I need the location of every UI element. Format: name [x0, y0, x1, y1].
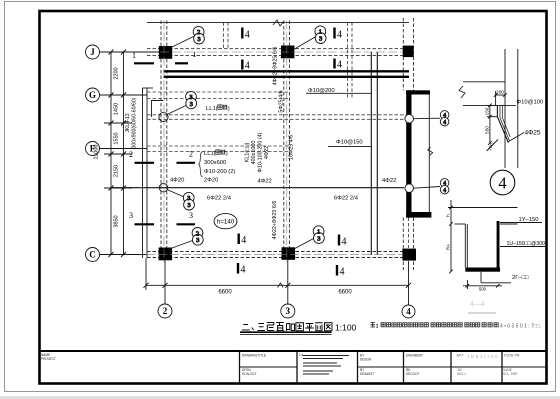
detail left dim chain [489, 105, 491, 143]
callout 2/3 top grid2 [172, 37, 194, 48]
U left dim [450, 200, 452, 272]
glyph san [257, 324, 265, 331]
big detail circle 4 [490, 170, 515, 195]
title block CJK note lines (drawn) [303, 356, 349, 375]
svg-text:6Φ22 2/4: 6Φ22 2/4 [334, 196, 359, 202]
row y117 dashed beam [147, 114, 406, 116]
wall return notch [152, 101, 164, 118]
svg-text:4: 4 [342, 237, 347, 248]
svg-text:SCALSCT: SCALSCT [242, 372, 257, 376]
svg-text:3: 3 [190, 101, 193, 108]
U bottom dim [463, 285, 502, 287]
section 2 dash left [135, 162, 155, 164]
wall right thin line [428, 95, 430, 213]
svg-text:2150: 2150 [113, 165, 119, 177]
title glyphs (drawn CJK strokes) [242, 323, 332, 332]
svg-text:DESGN: DESGN [360, 358, 372, 362]
break on slab left [459, 86, 465, 98]
U left wall [464, 224, 466, 268]
section mark 4 bottom-right-bay lower [336, 265, 338, 276]
svg-text:3: 3 [196, 237, 199, 244]
title block top line [39, 350, 547, 352]
svg-text:4: 4 [443, 113, 446, 119]
section 3 dash right [177, 223, 196, 225]
detail vertical line A [504, 49, 506, 168]
svg-text:6600: 6600 [338, 290, 352, 296]
grid4 beam dashed pair [402, 18, 404, 91]
title block divider v3 [357, 351, 359, 384]
svg-text:4—4: 4—4 [470, 301, 485, 308]
wall bottom flange [406, 212, 431, 218]
svg-text:4 • 6 3 5 0 1 : 7□□.: 4 • 6 3 5 0 1 : 7□□. [500, 324, 541, 330]
svg-text:4: 4 [337, 30, 342, 41]
svg-text:4Φ22+8Φ25 6/6: 4Φ22+8Φ25 6/6 [272, 201, 278, 240]
glyph gu [296, 323, 304, 331]
dim ticks bottom [144, 283, 412, 288]
svg-text:4: 4 [337, 60, 342, 71]
title block texts [41, 353, 520, 376]
svg-text:3: 3 [187, 202, 190, 209]
title underline double [240, 331, 332, 333]
grid line J stub [100, 51, 160, 53]
title block divider v4 [403, 351, 405, 384]
title block divider v2 [296, 351, 298, 384]
column grid3/J [281, 46, 294, 59]
grid bubble 2 [158, 304, 172, 318]
glyph ceng [267, 323, 275, 331]
svg-text:1450: 1450 [113, 103, 119, 115]
svg-text:DRAWINGTITLE: DRAWINGTITLE [242, 354, 266, 358]
svg-text:JKL4-13: JKL4-13 [125, 113, 131, 132]
title block stamp box [501, 351, 503, 384]
break on dim line [278, 283, 284, 288]
grid line C stub [100, 254, 148, 256]
U right wall [497, 221, 500, 268]
wall node circle lower [405, 184, 414, 193]
svg-text:h=140: h=140 [217, 219, 235, 226]
svg-text:1Y–150: 1Y–150 [519, 217, 539, 223]
svg-text:4: 4 [245, 61, 250, 72]
J row dashed beam [147, 48, 403, 50]
section 2 dash right [177, 162, 196, 164]
svg-text:550: 550 [484, 126, 489, 134]
dim 200 [496, 94, 505, 96]
callout 1/3 top grid3 [295, 37, 316, 49]
wall break symbol [428, 147, 433, 156]
svg-text:J: J [90, 47, 95, 57]
svg-text:200: 200 [496, 90, 504, 95]
mid beam between 3-4 dashed pair [347, 22, 349, 99]
glyph tu [324, 323, 332, 331]
bottom dimension line [146, 284, 409, 286]
grid circle C [86, 248, 100, 262]
node circle left row117 [159, 112, 168, 121]
svg-text:): ) [226, 151, 228, 157]
vertical text block KL1 new [245, 132, 271, 172]
chain extension stubs [104, 52, 132, 255]
svg-text:3: 3 [129, 211, 133, 220]
svg-text:2: 2 [163, 306, 168, 316]
wall node circle upper [405, 114, 414, 123]
title block divider v1 [239, 351, 241, 384]
svg-text:2Φ20: 2Φ20 [204, 178, 218, 184]
bottom gray strip [0, 396, 560, 399]
node circle left row187 [159, 184, 167, 192]
svg-text:10Φ25 4/6: 10Φ25 4/6 [289, 135, 295, 160]
chain tick marks [109, 50, 127, 258]
mid beam between 2-3 dashed pair [223, 22, 225, 48]
svg-text:Φ10-100-200 (4): Φ10-100-200 (4) [258, 132, 264, 172]
svg-text:1:100: 1:100 [335, 323, 357, 333]
svg-text:400x1000: 400x1000 [251, 141, 257, 165]
svg-text:3: 3 [197, 36, 200, 43]
title block mid horizontal [240, 366, 298, 368]
left dimension chain line inner [110, 52, 112, 255]
glyph mian [315, 323, 323, 331]
callout 3/3 upper-left [166, 106, 186, 116]
grid3 beam dashed pair [283, 21, 285, 261]
F row dashed beam [147, 145, 288, 147]
svg-text:2: 2 [189, 150, 193, 159]
svg-text:2: 2 [129, 150, 133, 159]
svg-text:4: 4 [245, 30, 250, 41]
svg-text:4: 4 [241, 265, 246, 276]
grid bubble 3 [281, 304, 295, 318]
callout 4/4 wall upper [414, 117, 441, 120]
section mark 4 top-left-bay lower [241, 60, 243, 70]
grid line G stub [100, 94, 148, 96]
svg-text:3: 3 [189, 211, 193, 220]
svg-text:WCL1: WCL1 [457, 372, 466, 376]
svg-text:4Φ22: 4Φ22 [264, 146, 270, 159]
svg-text:1550: 1550 [113, 132, 119, 144]
svg-text:11000: 11000 [94, 145, 100, 160]
text block LL1 new [199, 150, 236, 184]
svg-text:4Φ25: 4Φ25 [525, 130, 541, 137]
glyph ding [276, 323, 284, 332]
section mark 4 bottom-left-bay lower [237, 263, 239, 274]
label 1U-150@300 [500, 246, 546, 248]
detail slab line 2 [463, 104, 516, 106]
column grid2/C [159, 248, 172, 261]
svg-text:150: 150 [484, 107, 489, 115]
svg-text:2200: 2200 [113, 67, 119, 79]
svg-text:ENGINEER: ENGINEER [406, 354, 423, 358]
svg-text:FOOB-754: FOOB-754 [504, 354, 520, 358]
svg-text:4: 4 [241, 235, 246, 246]
extension line grid4 [408, 261, 410, 305]
svg-text:4: 4 [340, 267, 345, 278]
break on top line [273, 20, 284, 26]
center line grid2 [163, 21, 165, 263]
svg-text:C: C [89, 250, 96, 260]
C row dashed beam [147, 251, 403, 253]
section mark 4 bottom-right-bay upper [338, 235, 340, 246]
svg-text:300x900(60/60-60/60): 300x900(60/60-60/60) [132, 97, 138, 148]
beam haunch outline [497, 105, 508, 142]
svg-text:G: G [89, 90, 96, 100]
extension line grid3 [287, 260, 289, 304]
title block divider v5 [450, 351, 452, 384]
svg-text:1U–150□□@300: 1U–150□□@300 [507, 241, 545, 247]
callout 3/3 lower-left [167, 190, 184, 198]
section mark 4 bottom-left-bay upper [237, 234, 239, 245]
thick beam J-G lower line [164, 76, 410, 78]
svg-text:3: 3 [319, 36, 322, 43]
svg-text:6Φ22 2/4: 6Φ22 2/4 [207, 196, 232, 202]
wall top flange [406, 90, 430, 94]
svg-text:6600: 6600 [218, 290, 232, 296]
svg-text:SCL-TWR: SCL-TWR [503, 372, 518, 376]
callout 1/3 bottom grid3 [294, 239, 314, 250]
svg-text:2Γ–□□: 2Γ–□□ [512, 275, 529, 281]
column grid4/C [402, 249, 416, 261]
top boundary line [147, 21, 409, 23]
svg-text:LL1(: LL1( [206, 106, 218, 112]
svg-text:3: 3 [317, 235, 320, 242]
wall left flange [406, 90, 411, 217]
svg-text:1: 1 [193, 50, 197, 59]
U top-right ledge [500, 223, 518, 225]
svg-text:): ) [228, 106, 230, 112]
U bottom flange [465, 268, 500, 272]
faint stamp under U detail [470, 301, 485, 308]
extension line left end [145, 258, 147, 290]
section 1 dash right [175, 62, 188, 64]
svg-text:4: 4 [406, 307, 411, 317]
svg-text:4: 4 [443, 181, 446, 187]
svg-text:LL1(: LL1( [204, 151, 216, 157]
label 2T with leader [480, 272, 482, 283]
grid circle G [86, 88, 100, 102]
grid circle J [86, 45, 100, 59]
svg-text:4: 4 [443, 120, 446, 126]
U top-left ledge [455, 223, 466, 225]
svg-text:KL1(□□): KL1(□□) [245, 142, 251, 162]
label 4phi25 with leader [509, 133, 525, 142]
row y187 thin beam [111, 187, 404, 189]
center line grid3 [286, 21, 288, 263]
glyph comma [252, 328, 254, 331]
svg-text:1.4: 1.4 [299, 353, 304, 357]
detail vertical line B [517, 49, 519, 168]
svg-text:3: 3 [286, 306, 291, 316]
column grid3/C [282, 247, 296, 259]
svg-text:5Φ25 4/6: 5Φ25 4/6 [279, 90, 285, 112]
svg-text:4: 4 [443, 188, 446, 194]
G row dashed beam [147, 91, 288, 93]
grid line F stub [100, 148, 148, 150]
label LL1 upper with fake CJK [206, 105, 230, 112]
extension line grid2 [164, 261, 166, 305]
grid bubble 4 [402, 305, 415, 318]
svg-text:PROJECT: PROJECT [41, 357, 56, 361]
svg-text:SECGOT: SECGOT [406, 372, 420, 376]
glyph er [242, 325, 250, 331]
section 3 dash left [135, 223, 155, 225]
svg-text:Φ10@100: Φ10@100 [517, 100, 544, 106]
svg-text:4Φ22+8Φ25 6/6: 4Φ22+8Φ25 6/6 [273, 47, 279, 86]
new solid beam pair grid3-4 [370, 52, 372, 255]
svg-text:500: 500 [479, 287, 487, 292]
left dimension chain line outer [123, 52, 125, 255]
section mark 4 top-right-bay lower [333, 59, 335, 69]
callout 2/3 bottom grid2 [168, 241, 193, 250]
section 1 dash left [134, 62, 154, 64]
svg-text:4Φ22: 4Φ22 [258, 179, 272, 185]
U top line [448, 207, 518, 209]
center line C [146, 253, 403, 255]
grid2 beam dashed pair [160, 21, 162, 261]
note line (drawn tiny CJK) [371, 323, 378, 330]
svg-text:Φ10@150: Φ10@150 [336, 140, 363, 146]
glyph jia [287, 324, 295, 332]
grid circle F [86, 142, 100, 156]
svg-text:Φ10-200 (2): Φ10-200 (2) [204, 169, 235, 175]
svg-text:1: 1 [132, 51, 136, 60]
glyph ping [305, 324, 313, 332]
svg-text:JDB2(100: JDB2(100 [467, 354, 499, 359]
svg-text:4Φ20: 4Φ20 [170, 178, 184, 184]
h=140 ellipse [214, 214, 237, 229]
svg-text:DRAWOT: DRAWOT [360, 372, 374, 376]
svg-text:4: 4 [498, 174, 506, 193]
svg-text:RA: RA [446, 244, 451, 250]
center line J [160, 51, 403, 53]
svg-text:3850: 3850 [113, 215, 119, 227]
svg-text:4Φ22: 4Φ22 [382, 178, 396, 184]
callout 4/4 wall lower [414, 187, 441, 189]
column grid4/J [403, 46, 414, 58]
label 1Y-150 [500, 222, 542, 224]
left wall double line [142, 88, 144, 258]
section mark 4 top-right-bay upper [333, 28, 335, 39]
svg-text::: : [377, 324, 378, 330]
svg-text:300x600: 300x600 [204, 160, 226, 166]
thick beam J-G upper line [164, 70, 410, 72]
svg-text:JW-T: JW-T [456, 354, 464, 358]
section mark 4 top-left-bay upper [241, 28, 243, 39]
column grid2/J [159, 46, 172, 59]
detail top slab line [463, 81, 505, 83]
